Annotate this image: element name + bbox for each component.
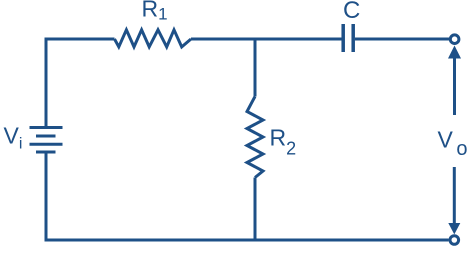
wire node to R2 — [254, 39, 257, 97]
svg-text:R1: R1 — [142, 0, 168, 24]
svg-text:Vo: Vo — [438, 127, 468, 161]
terminal bottom output — [450, 236, 459, 245]
wire battery to bottom wire and bottom horizontal (with corner) — [46, 153, 449, 240]
resistor R1 — [115, 30, 192, 47]
arrow Vo lower shaft — [453, 167, 456, 225]
svg-text:R2: R2 — [270, 125, 297, 159]
wire top middle (R1 to capacitor) — [191, 38, 342, 41]
wire top-left horizontal (with corner) — [46, 39, 115, 127]
arrow Vo upper shaft — [453, 56, 456, 115]
terminal top output — [450, 35, 459, 44]
svg-text:Vi: Vi — [4, 123, 23, 153]
arrowhead Vo upper (points up at top terminal) — [448, 46, 461, 59]
arrowhead Vo lower (points down at bottom terminal) — [448, 223, 460, 234]
capacitor C — [343, 24, 353, 52]
wire capacitor to output terminal — [355, 38, 450, 41]
wire R2 to bottom — [254, 178, 257, 241]
battery Vi — [30, 128, 63, 153]
resistor R2 — [247, 97, 263, 178]
svg-text:C: C — [343, 0, 360, 24]
